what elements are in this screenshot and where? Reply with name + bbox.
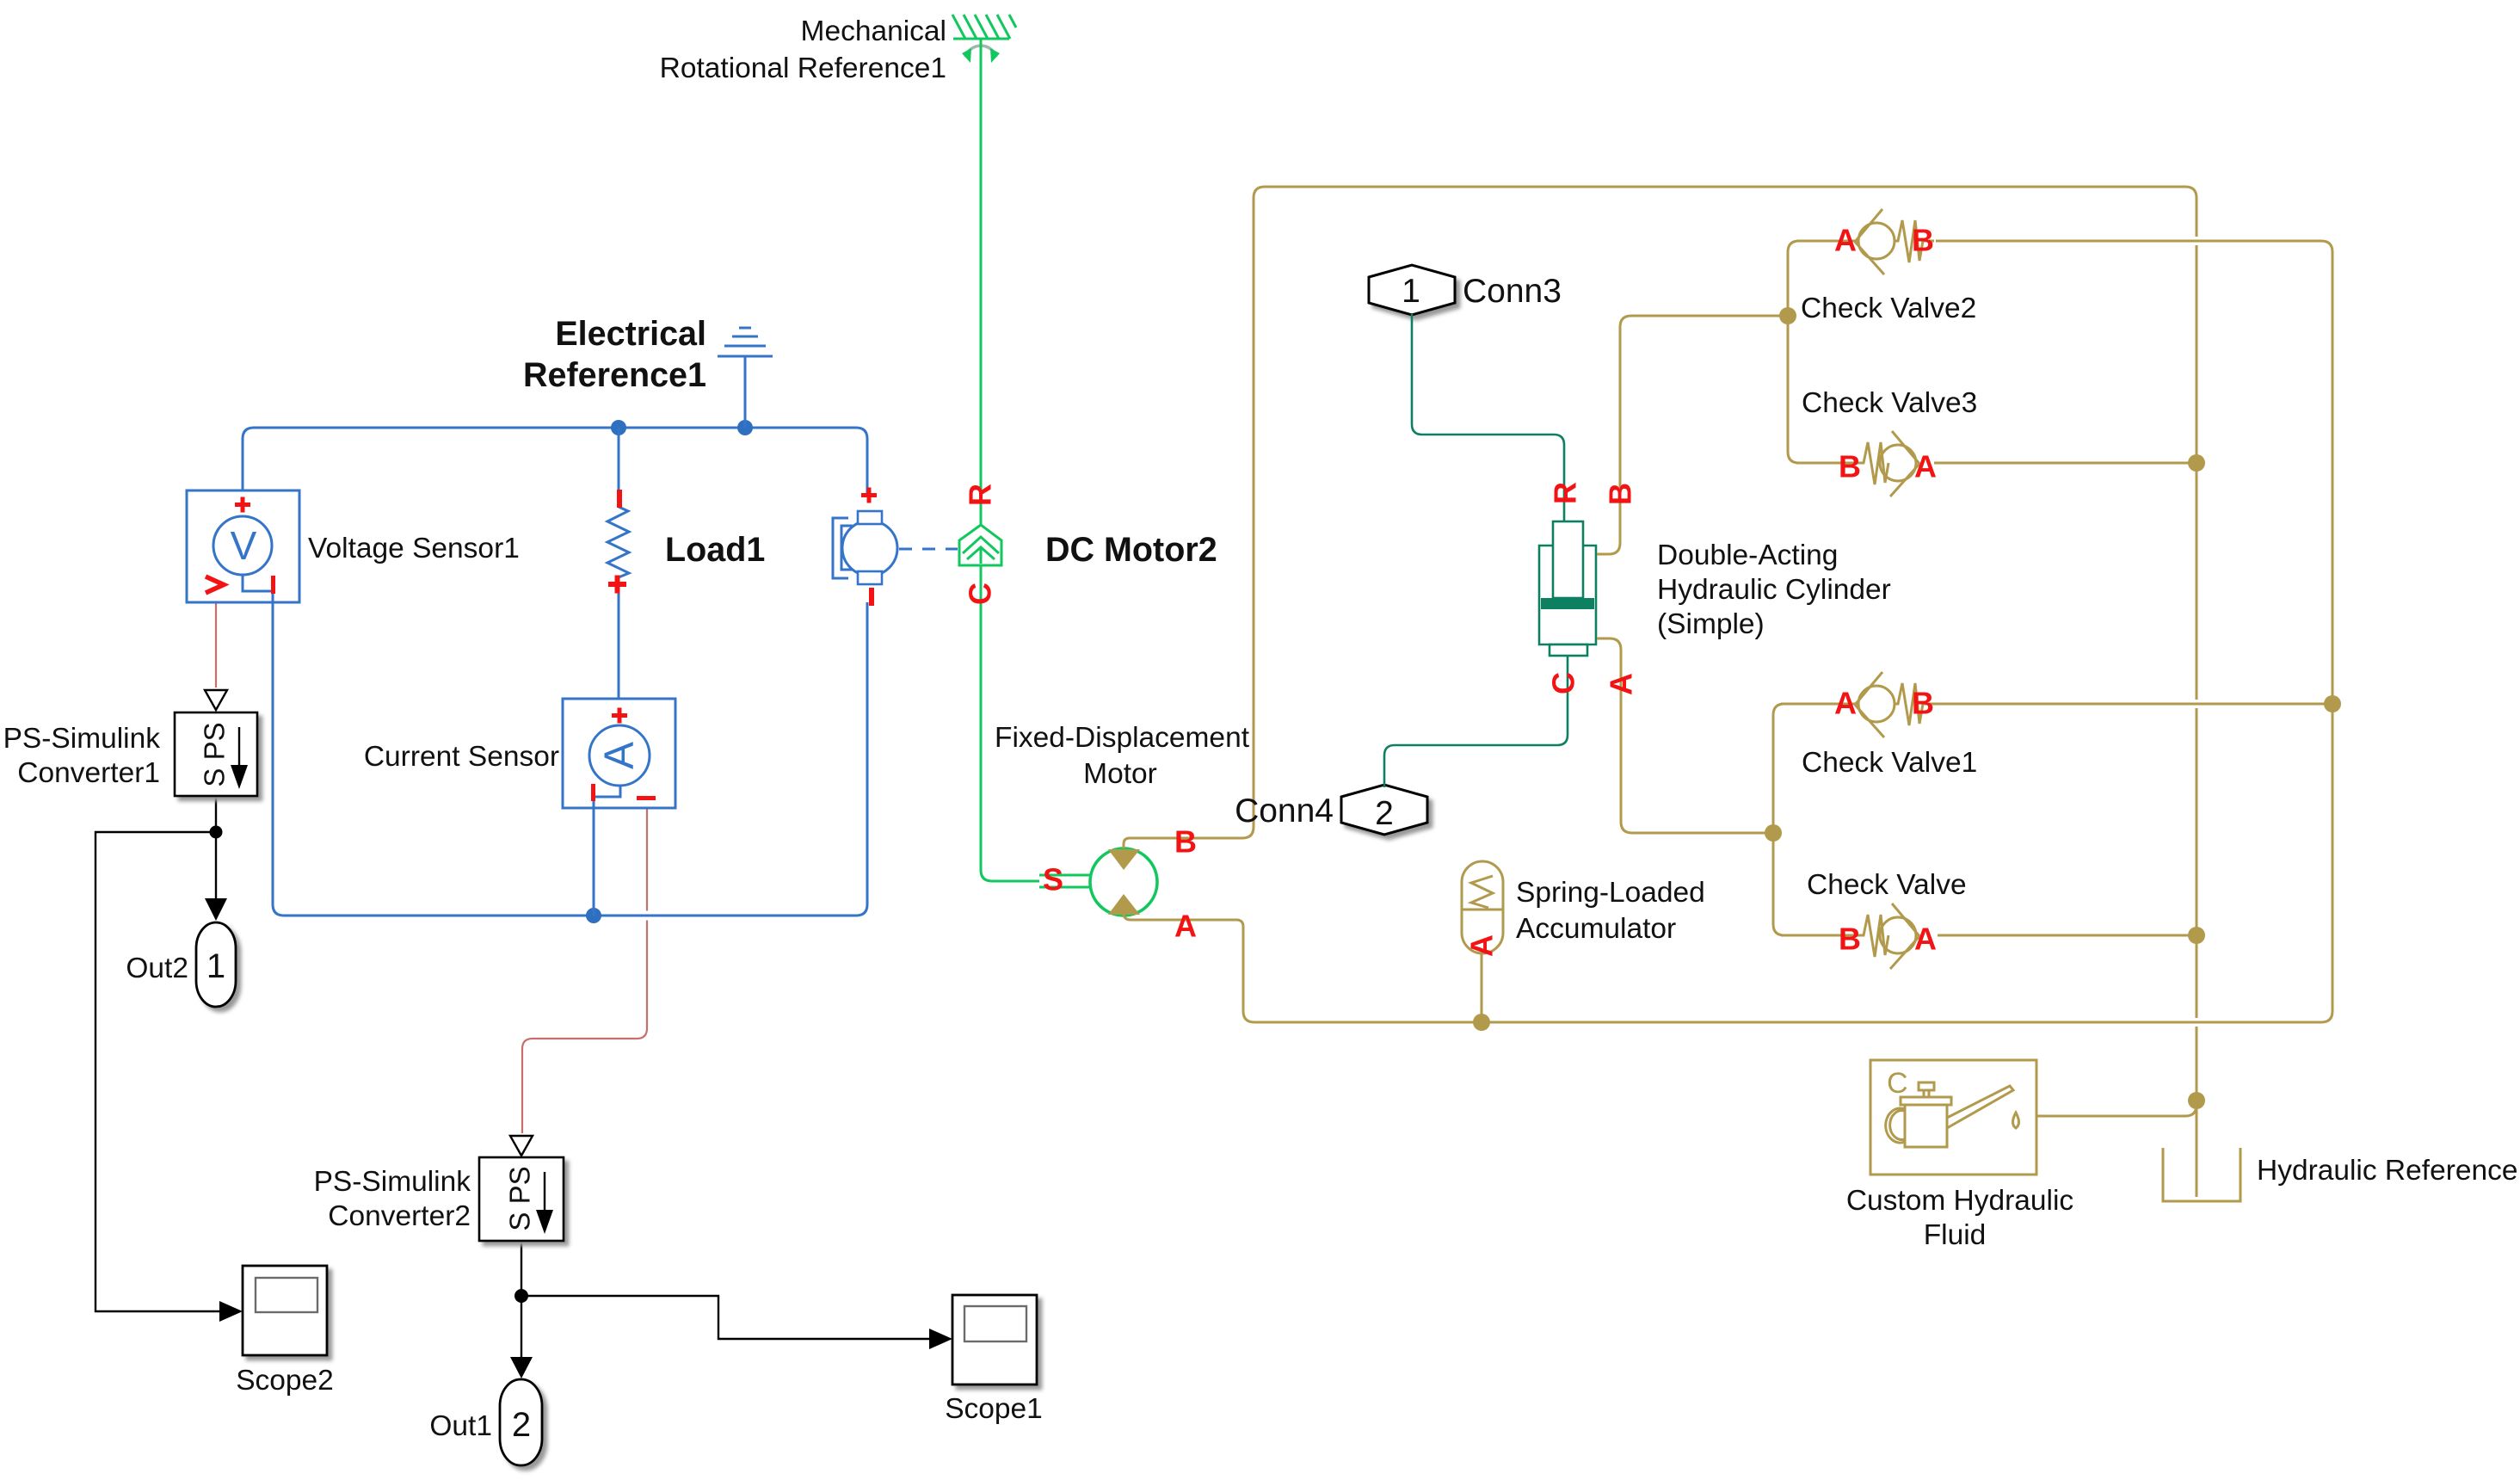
svg-text:Custom Hydraulic: Custom Hydraulic — [1846, 1185, 2073, 1217]
svg-text:Load1: Load1 — [665, 531, 765, 569]
svg-text:A: A — [1464, 934, 1500, 957]
svg-text:Fixed-Displacement: Fixed-Displacement — [995, 722, 1250, 754]
svg-text:Converter2: Converter2 — [328, 1200, 471, 1232]
svg-text:R: R — [963, 484, 998, 506]
svg-text:Motor: Motor — [1083, 758, 1157, 790]
svg-text:B: B — [1839, 922, 1861, 957]
svg-text:PS-Simulink: PS-Simulink — [314, 1166, 471, 1198]
svg-text:Converter1: Converter1 — [17, 757, 160, 789]
svg-text:Out2: Out2 — [126, 953, 188, 984]
svg-text:Conn4: Conn4 — [1235, 792, 1334, 829]
svg-text:Current Sensor: Current Sensor — [364, 741, 559, 773]
svg-text:S PS: S PS — [504, 1166, 536, 1230]
svg-text:B: B — [1174, 824, 1197, 860]
svg-text:Out1: Out1 — [429, 1410, 492, 1442]
svg-text:2: 2 — [1375, 795, 1394, 832]
svg-text:C: C — [1546, 672, 1581, 694]
svg-text:Check Valve: Check Valve — [1807, 869, 1967, 901]
svg-text:Reference1: Reference1 — [523, 356, 706, 394]
svg-text:Electrical: Electrical — [555, 315, 706, 353]
svg-text:2: 2 — [512, 1406, 531, 1444]
svg-text:Conn3: Conn3 — [1463, 273, 1562, 310]
svg-text:B: B — [1603, 483, 1638, 505]
svg-text:A: A — [1914, 449, 1937, 484]
svg-text:Fluid: Fluid — [1924, 1219, 1987, 1251]
svg-text:A: A — [1914, 922, 1937, 957]
svg-text:Double-Acting: Double-Acting — [1657, 540, 1838, 571]
svg-text:(Simple): (Simple) — [1657, 608, 1765, 640]
svg-text:B: B — [1912, 686, 1934, 721]
svg-text:S PS: S PS — [199, 722, 231, 786]
svg-text:1: 1 — [206, 947, 225, 985]
svg-text:A: A — [1604, 673, 1639, 695]
svg-text:A: A — [1174, 909, 1197, 944]
svg-text:A: A — [597, 742, 643, 769]
svg-text:A: A — [1834, 686, 1857, 721]
svg-text:Scope2: Scope2 — [236, 1365, 334, 1397]
svg-text:Accumulator: Accumulator — [1516, 913, 1676, 945]
svg-text:PS-Simulink: PS-Simulink — [3, 723, 161, 755]
svg-text:Voltage Sensor1: Voltage Sensor1 — [308, 533, 520, 564]
svg-text:Check Valve1: Check Valve1 — [1802, 747, 1977, 779]
svg-text:DC Motor2: DC Motor2 — [1045, 531, 1217, 569]
svg-text:Mechanical: Mechanical — [801, 15, 946, 47]
svg-text:Hydraulic Reference: Hydraulic Reference — [2257, 1155, 2518, 1187]
svg-text:1: 1 — [1402, 273, 1420, 310]
svg-text:B: B — [1912, 223, 1934, 258]
svg-text:C: C — [963, 583, 998, 605]
svg-text:Spring-Loaded: Spring-Loaded — [1516, 877, 1705, 909]
svg-text:B: B — [1839, 449, 1861, 484]
svg-text:Check Valve2: Check Valve2 — [1801, 293, 1976, 324]
svg-text:A: A — [1834, 223, 1857, 258]
svg-text:Hydraulic Cylinder: Hydraulic Cylinder — [1657, 574, 1891, 606]
svg-text:Scope1: Scope1 — [945, 1393, 1043, 1425]
svg-text:S: S — [1043, 862, 1063, 897]
svg-text:R: R — [1548, 482, 1583, 504]
svg-text:V: V — [231, 523, 257, 568]
svg-text:Check Valve3: Check Valve3 — [1802, 387, 1977, 419]
svg-text:Rotational Reference1: Rotational Reference1 — [660, 52, 946, 84]
svg-text:C: C — [1887, 1067, 1908, 1100]
